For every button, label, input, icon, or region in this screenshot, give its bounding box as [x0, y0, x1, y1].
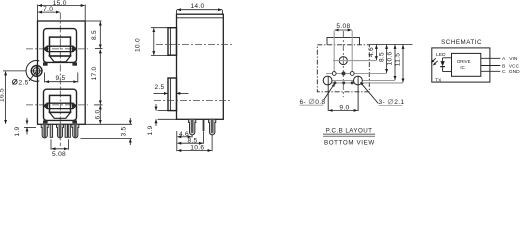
svg-text:2.1: 2.1 [394, 99, 404, 106]
pcb holes 0.8 middle row [332, 72, 354, 76]
centerline bottom side view [154, 100, 232, 102]
mounting boss circle [26, 60, 43, 81]
solder pin rivet 2 front [57, 124, 64, 138]
pcb outline dashed [317, 45, 369, 92]
solder pin front row side view [189, 119, 196, 135]
label 6 holes diameter 0.8 [300, 83, 335, 106]
label LED [436, 52, 446, 58]
side view flange tab upper [168, 28, 177, 56]
dimension 1.9 front [14, 118, 36, 137]
dimension 10.6 pcb [387, 45, 395, 80]
pcb peg extension lines [328, 76, 358, 111]
centerline top connector [26, 48, 88, 50]
pcb hole 2.1 top [339, 57, 347, 65]
dimension 4.6 pcb [368, 45, 376, 60]
svg-text:15.0: 15.0 [53, 0, 67, 7]
front view body plate [38, 21, 86, 124]
svg-text:IC: IC [460, 65, 464, 70]
dimension 15.0 [38, 0, 86, 21]
caption schematic [441, 39, 482, 46]
wire pin C GND [481, 69, 520, 75]
solder pin back row side view [209, 119, 216, 135]
wire pin B VCC [481, 63, 520, 69]
wire pin A VIN [481, 56, 518, 62]
solder pin rivet 1 front [41, 124, 48, 138]
dimension 16.5 [0, 71, 27, 124]
drive IC box [452, 53, 481, 76]
svg-text:7.0: 7.0 [43, 6, 53, 13]
svg-text:TX: TX [435, 77, 442, 83]
pcb right dimension datum line [369, 43, 412, 45]
pcb holes 2.1 bottom pegs [323, 76, 362, 85]
label 3 holes diameter 2.1 [360, 82, 404, 106]
svg-text:VIN: VIN [509, 56, 518, 62]
svg-text:C: C [502, 69, 506, 75]
side view body [177, 14, 224, 119]
centerline bottom connector [26, 104, 88, 106]
svg-text:8.5: 8.5 [91, 30, 98, 40]
label TX [435, 77, 442, 83]
dimension 10.6 side [177, 135, 212, 152]
pcb holes 0.8 bottom row [333, 81, 353, 84]
pcb pin column lines [334, 31, 352, 74]
centerline vertical front view [59, 13, 61, 147]
svg-text:1.9: 1.9 [147, 125, 154, 135]
dimension 7.0 [38, 6, 60, 13]
svg-text:16.5: 16.5 [0, 88, 5, 102]
svg-text:17.0: 17.0 [91, 66, 98, 80]
pcb connector row lines grey [323, 61, 404, 83]
svg-text:A: A [502, 56, 506, 62]
svg-text:6.0: 6.0 [95, 109, 102, 119]
svg-text:9.0: 9.0 [339, 104, 349, 111]
shell feet bottom connector [43, 120, 77, 123]
narrow pin 2 front [65, 124, 67, 137]
svg-text:5.08: 5.08 [52, 151, 66, 157]
svg-text:10.6: 10.6 [387, 51, 394, 65]
svg-text:6-: 6- [300, 99, 306, 106]
dimension 1.9 side [147, 104, 177, 136]
label diameter 2.5 [13, 72, 37, 86]
svg-text:B: B [502, 63, 505, 69]
svg-text:LED: LED [436, 52, 446, 58]
pcb centerline vertical [342, 31, 344, 97]
svg-text:11.5: 11.5 [395, 53, 402, 67]
dimension 11.5 pcb [395, 45, 403, 83]
dimension 9.5 [45, 73, 78, 83]
svg-text:2.5: 2.5 [154, 84, 164, 91]
dimension chain 8.5 / 17.0 / 6.0 right side [85, 21, 132, 124]
svg-text:VCC: VCC [509, 63, 520, 69]
svg-text:P.C.B LAYOUT: P.C.B LAYOUT [326, 128, 373, 135]
dimension 8.5 pcb [378, 45, 386, 73]
dimension 9.0 [329, 104, 358, 111]
dimension 14.0 [177, 3, 223, 14]
solder pin rivet 3 front [72, 124, 79, 138]
side view flange tab lower [168, 78, 177, 111]
svg-text:3-: 3- [379, 99, 385, 106]
LED diode symbol [440, 58, 451, 72]
centerline top side view [156, 44, 234, 46]
svg-text:10.6: 10.6 [190, 145, 204, 152]
dimension 10.0 [135, 28, 171, 56]
dimension 2.5 flange [154, 84, 189, 93]
pcb bump outline [327, 37, 360, 44]
svg-text:1.9: 1.9 [14, 126, 21, 136]
svg-text:10.0: 10.0 [135, 38, 142, 52]
svg-text:GND: GND [509, 69, 520, 75]
caption pcb layout [323, 128, 375, 147]
narrow pin 1 front [50, 124, 52, 137]
svg-text:8.5: 8.5 [378, 52, 385, 62]
svg-text:3.5: 3.5 [120, 126, 127, 136]
svg-text:9.5: 9.5 [55, 75, 65, 82]
svg-text:SCHEMATIC: SCHEMATIC [441, 39, 482, 46]
dimension 5.08 pcb [335, 23, 352, 30]
locating peg side view [203, 119, 205, 131]
narrow pin 3 front [68, 124, 70, 137]
USB receptacle shell bottom [44, 89, 77, 120]
svg-text:14.0: 14.0 [190, 3, 204, 10]
svg-text:2.5: 2.5 [19, 79, 29, 86]
dimension 4.6 side [177, 131, 192, 151]
USB receptacle shell top [44, 29, 77, 63]
svg-text:4.6: 4.6 [368, 47, 375, 57]
svg-text:8.5: 8.5 [187, 137, 197, 144]
dimension 5.08 front [51, 139, 68, 158]
dimension 3.5 [81, 118, 133, 145]
LED emission arrows [431, 58, 438, 65]
svg-text:BOTTOM VIEW: BOTTOM VIEW [324, 139, 375, 146]
svg-text:DRIVE: DRIVE [457, 59, 470, 64]
schematic outer box [432, 48, 490, 82]
svg-text:5.08: 5.08 [336, 23, 350, 30]
shell feet top connector [43, 62, 77, 65]
dimension 8.5 side [177, 131, 203, 144]
